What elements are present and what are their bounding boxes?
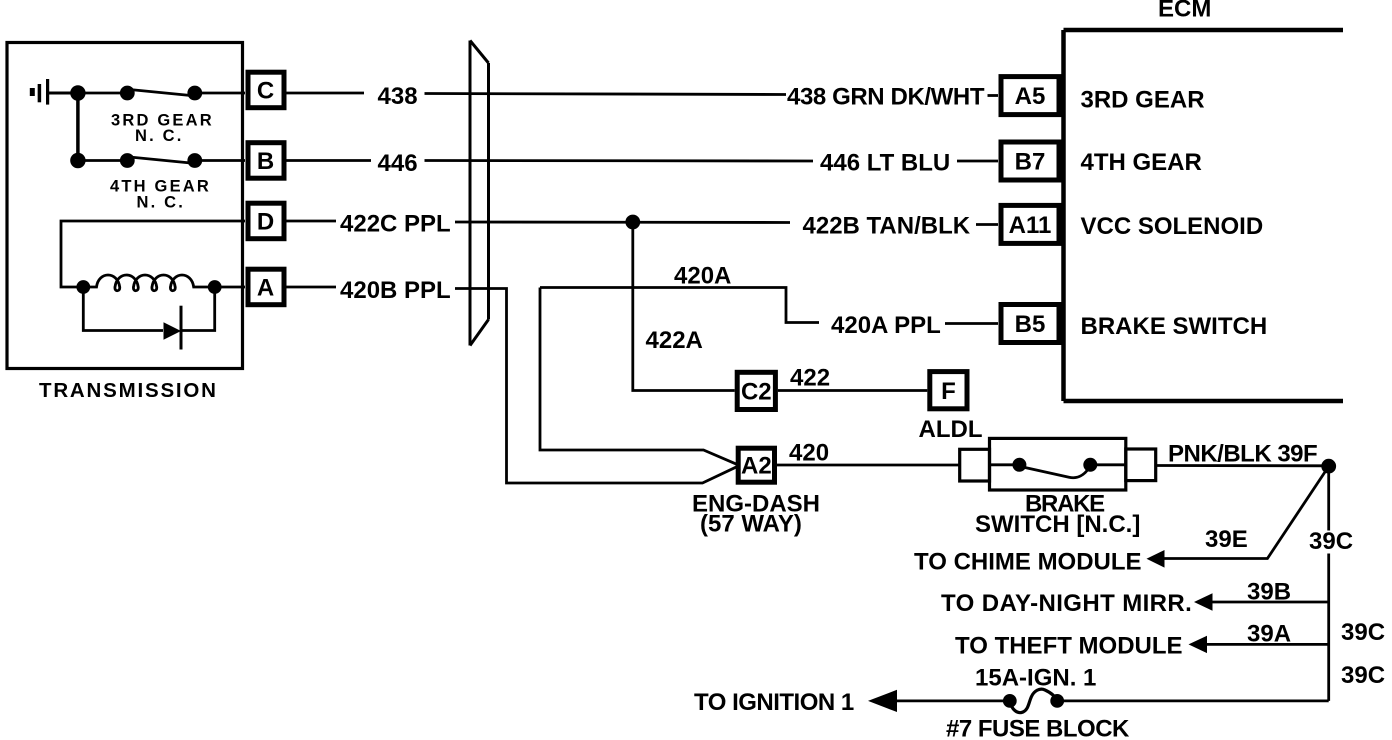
node: ground junction (72, 87, 85, 100)
wire: 3rd gear switch to C (195, 92, 245, 95)
wire 438 left (287, 92, 365, 95)
svg-text:39C: 39C (1341, 662, 1385, 689)
wire: diode loop (83, 287, 163, 331)
node: 4th gear junction (72, 154, 85, 167)
svg-text:TO IGNITION 1: TO IGNITION 1 (694, 689, 854, 716)
wire 420A to B5 (540, 288, 819, 323)
svg-text:VCC SOLENOID: VCC SOLENOID (1081, 213, 1264, 240)
svg-text:420A PPL: 420A PPL (831, 312, 941, 339)
connector C (248, 72, 284, 305)
svg-text:B5: B5 (1015, 311, 1046, 338)
pin A5 (1001, 77, 1059, 115)
svg-text:422: 422 (790, 365, 830, 392)
svg-text:39B: 39B (1247, 579, 1291, 606)
svg-text:TO CHIME MODULE: TO CHIME MODULE (914, 549, 1142, 576)
wire 39E slant (1163, 466, 1329, 558)
svg-text:39E: 39E (1205, 526, 1248, 553)
brake switch blade (1020, 467, 1089, 478)
brake switch left terminal (960, 449, 990, 481)
pin B7 (1001, 142, 1059, 180)
wire 39C vertical (1327, 466, 1330, 701)
wire: junction to 4th gear row (76, 93, 80, 161)
wire 420A branch down to A2 (540, 288, 738, 465)
ECM box (1064, 30, 1344, 401)
pin B5 (1001, 305, 1059, 343)
brake switch contacts (991, 463, 1019, 466)
svg-text:SWITCH [N.C.]: SWITCH [N.C.] (975, 511, 1140, 538)
svg-text:446: 446 (378, 150, 418, 177)
svg-text:438 GRN DK/WHT: 438 GRN DK/WHT (787, 84, 985, 111)
svg-text:TRANSMISSION: TRANSMISSION (39, 379, 218, 402)
svg-text:TO DAY-NIGHT MIRR.: TO DAY-NIGHT MIRR. (941, 590, 1192, 617)
arrow to theft module (1189, 636, 1208, 653)
svg-text:420B PPL: 420B PPL (340, 277, 451, 304)
svg-text:422A: 422A (646, 327, 703, 354)
wire 420A right stub (945, 322, 998, 325)
svg-text:A5: A5 (1015, 83, 1046, 110)
connector F (ALDL) (930, 372, 967, 409)
svg-text:F: F (941, 378, 956, 405)
wire 422C/422B mid (455, 221, 790, 224)
wire brake switch to 39 node (1156, 464, 1329, 467)
ground (32, 79, 78, 105)
connector C2 (737, 372, 775, 409)
wire 39B (1211, 601, 1329, 604)
svg-text:B7: B7 (1015, 149, 1046, 176)
svg-text:A: A (257, 275, 274, 302)
svg-text:4TH GEAR: 4TH GEAR (1081, 149, 1202, 176)
svg-text:3RD GEAR: 3RD GEAR (1081, 87, 1205, 114)
svg-text:39C: 39C (1341, 619, 1385, 646)
svg-text:N. C.: N. C. (135, 127, 184, 145)
wire 422A down to C2 (633, 222, 735, 391)
connector A (248, 269, 284, 305)
svg-text:D: D (257, 209, 274, 236)
wire A2 to brake switch (777, 464, 960, 467)
connector D (248, 203, 284, 239)
svg-text:#7 FUSE BLOCK: #7 FUSE BLOCK (946, 715, 1130, 740)
wire: ground junction to 3rd contact (78, 92, 127, 95)
svg-text:422C PPL: 422C PPL (340, 211, 451, 238)
svg-text:B: B (257, 148, 274, 175)
wire 422B right stub (976, 223, 998, 226)
switch blade 4th gear (126, 157, 196, 164)
wire C2 to F (778, 389, 927, 392)
svg-text:N. C.: N. C. (137, 194, 186, 212)
wire 446 left (287, 159, 372, 162)
arrow to chime module (1147, 550, 1165, 568)
svg-text:A11: A11 (1009, 212, 1052, 239)
svg-text:39C: 39C (1309, 528, 1353, 555)
svg-text:39A: 39A (1247, 621, 1291, 648)
svg-text:A2: A2 (741, 453, 772, 480)
switch blade 3rd gear (126, 89, 196, 96)
wire 438 mid (425, 94, 787, 95)
svg-text:446 LT BLU: 446 LT BLU (820, 150, 950, 177)
svg-text:420A: 420A (674, 263, 731, 290)
node 39F junction (1323, 460, 1335, 472)
svg-text:PNK/BLK 39F: PNK/BLK 39F (1168, 441, 1317, 468)
wire: D terminal row (61, 221, 245, 287)
node: coil right (209, 282, 220, 293)
wire to ignition 1 (895, 700, 1010, 703)
pin A11 (1001, 205, 1059, 243)
svg-text:BRAKE SWITCH: BRAKE SWITCH (1081, 313, 1268, 340)
node: coil left (78, 282, 89, 293)
svg-text:C: C (257, 78, 274, 105)
node: 422 junction (627, 216, 639, 228)
switch: 4th gear N.C. contacts (121, 155, 133, 167)
svg-text:ALDL: ALDL (919, 416, 983, 443)
svg-text:C2: C2 (741, 379, 772, 406)
wire 446 mid (425, 159, 814, 162)
svg-text:ECM: ECM (1158, 0, 1211, 23)
svg-text:15A-IGN. 1: 15A-IGN. 1 (975, 665, 1096, 692)
svg-text:422B TAN/BLK: 422B TAN/BLK (803, 213, 971, 240)
harness connector (bulkhead) (470, 41, 489, 346)
switch: 3rd gear N.C. contacts (121, 87, 133, 99)
diode D1 (164, 322, 182, 339)
arrow to ignition 1 (868, 690, 897, 712)
inductor: VCC solenoid coil (83, 275, 245, 291)
arrow to day-night mirror (1194, 593, 1213, 610)
wire 422C left (287, 220, 337, 223)
brake switch body (990, 438, 1126, 490)
wire: junction to 4th gear contact (78, 159, 127, 162)
svg-text:438: 438 (378, 83, 418, 110)
wire 420B through connector, down (455, 289, 738, 484)
connector A2 (738, 448, 774, 482)
wire 39A (1206, 643, 1329, 646)
wire 438 right stub (988, 94, 999, 97)
fuse 15A IGN 1 (1004, 695, 1015, 706)
wire: 4th gear switch to B (195, 159, 245, 162)
wire 446 right stub (957, 160, 998, 163)
svg-text:TO THEFT MODULE: TO THEFT MODULE (955, 633, 1183, 660)
brake switch right terminal (1126, 449, 1156, 481)
wire 420B left (287, 286, 337, 289)
svg-text:420: 420 (789, 440, 829, 467)
connector B (248, 143, 284, 179)
svg-text:(57 WAY): (57 WAY) (700, 511, 802, 538)
transmission box (7, 43, 243, 369)
